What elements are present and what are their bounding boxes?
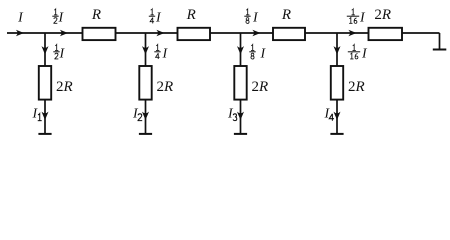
current label 1/4 I (branch 2) [154,45,168,62]
current arrow 1/4 I on top rail [156,30,164,37]
resistor 2R vertical in branch 3 [234,66,246,100]
current arrow 1/2 I on top rail [60,30,68,37]
resistor R3 (R) horizontal [273,28,305,40]
svg-text:2R: 2R [56,79,73,95]
current arrow 1/8 I down branch 3 [237,46,244,54]
current label 1/16 I (top) [347,9,366,25]
current arrow I2 at branch 2 bottom [142,112,149,120]
label I1 (branch 1 output current) [32,107,42,122]
current arrow 1/16 I on top rail [348,30,356,37]
svg-text:R: R [186,7,196,23]
current arrow 1/8 I on top rail [252,30,260,37]
current arrow 1/4 I down branch 2 [142,46,149,54]
wire: branch 3 vertical from node 3 to ground [240,33,242,134]
ground (branch 1) [38,133,51,135]
svg-text:R: R [91,7,101,23]
resistor R2 (R) horizontal [178,28,211,40]
current arrow 1/16 I down branch 4 [334,46,341,54]
svg-text:2R: 2R [157,79,174,95]
wire: branch 1 vertical from node 1 to ground [44,33,46,134]
resistor R1 (R) horizontal [83,28,116,40]
current label 1/16 I (branch 4) [348,45,368,62]
svg-text:2R: 2R [252,79,269,95]
ground (branch 2) [139,133,152,135]
current label 1/2 I (branch 1) [53,45,65,62]
svg-text:2R: 2R [374,7,391,23]
wire: branch 4 vertical from node 4 to ground [336,33,338,134]
resistor R4 (2R) horizontal [369,28,403,40]
ground (branch 4) [330,133,343,135]
svg-text:2R: 2R [348,79,365,95]
resistor 2R vertical in branch 1 [39,66,51,100]
current label 1/8 I (branch 3) [249,45,266,62]
label I3 (branch 3 output current) [227,107,237,122]
current label 1/2 I (top) [52,9,64,25]
resistor 2R vertical in branch 2 [139,66,151,100]
current label 1/8 I (top) [244,9,259,25]
current arrow I3 at branch 3 bottom [237,112,244,120]
wire: branch 2 vertical from node 2 to ground [145,33,147,134]
input current arrow I [16,30,24,37]
resistor 2R vertical in branch 4 [331,66,343,100]
current label 1/4 I (top) [149,9,162,25]
current arrow I1 at branch 1 bottom [42,112,49,120]
label I2 (branch 2 output current) [132,107,142,122]
wire: drop to right ground [439,33,441,49]
ground (right output) [433,49,447,51]
current arrow I4 at branch 4 bottom [334,112,341,120]
current arrow 1/2 I down branch 1 [42,46,49,54]
label I4 (branch 4 output current) [324,107,335,122]
svg-text:R: R [281,7,291,23]
wire: main top rail [7,32,440,34]
ground (branch 3) [234,133,247,135]
